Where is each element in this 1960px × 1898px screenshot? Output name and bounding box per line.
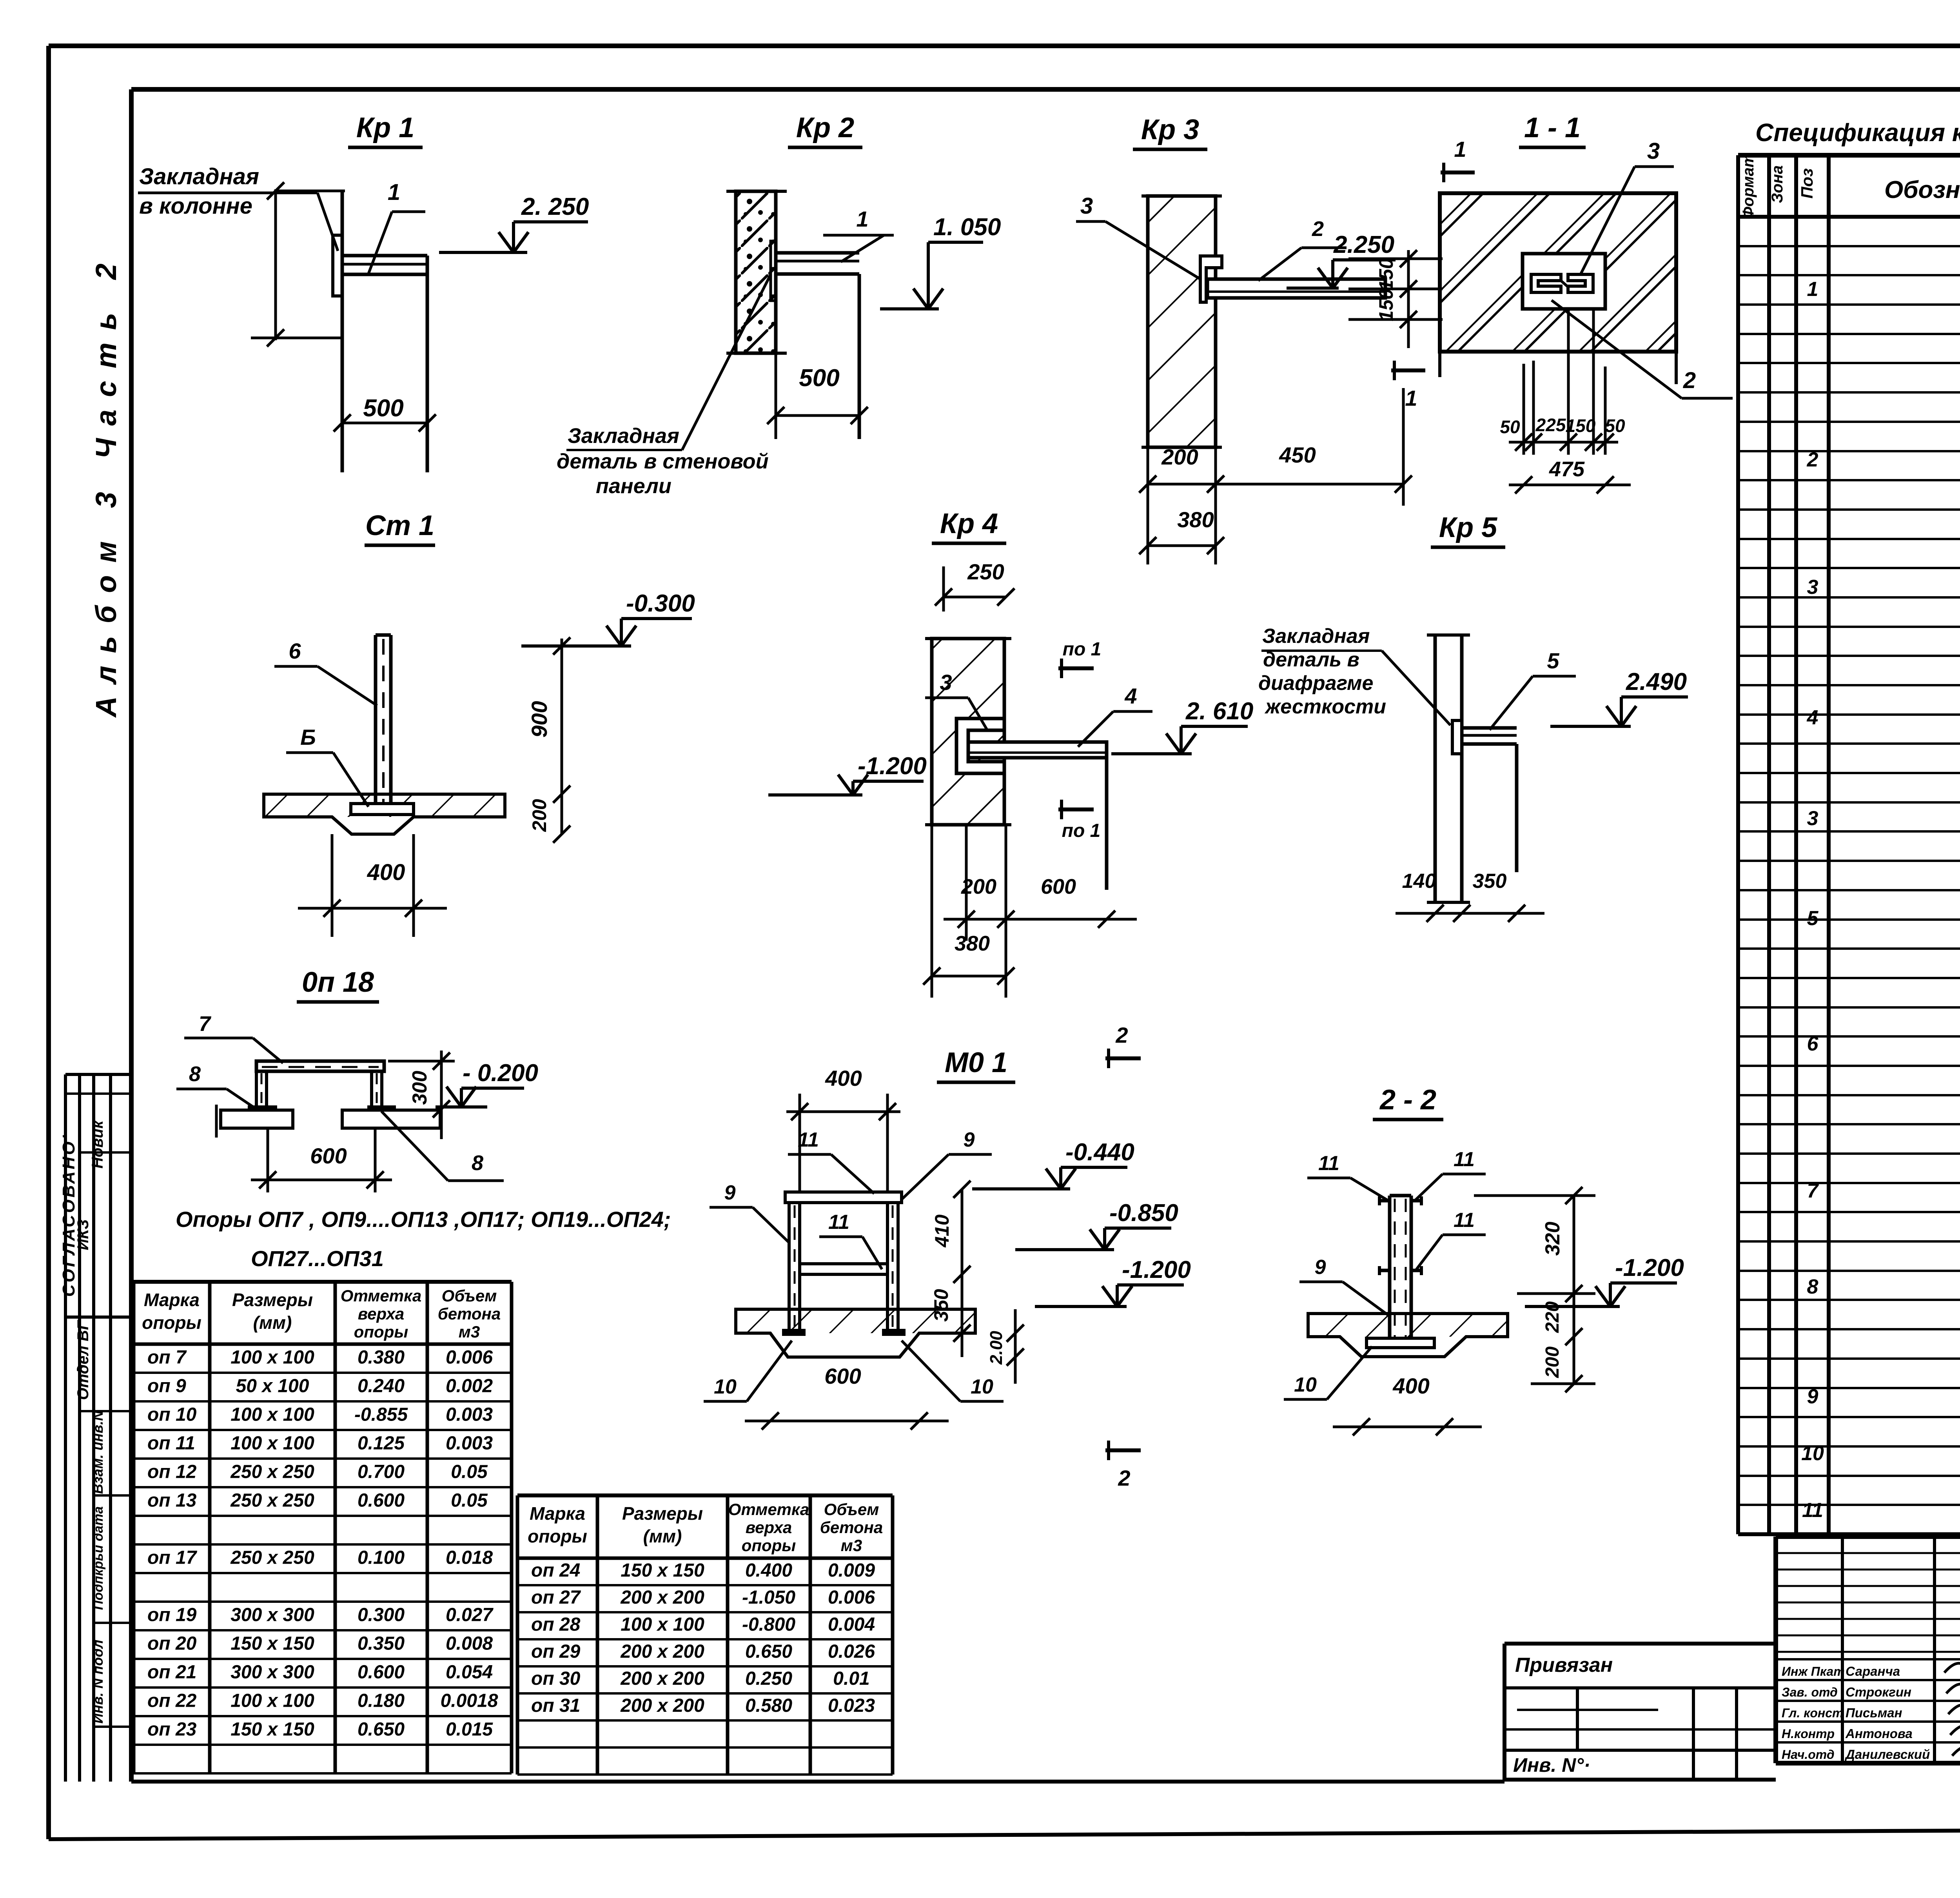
svg-text:50 х 100: 50 х 100 [236,1376,309,1397]
left stamp strip [64,1074,67,1782]
svg-text:2: 2 [1115,1023,1128,1047]
svg-text:по 1: по 1 [1062,820,1101,841]
svg-text:Кр 3: Кр 3 [1141,114,1199,145]
svg-text:300 х 300: 300 х 300 [230,1605,314,1626]
svg-text:9: 9 [1807,1385,1818,1408]
svg-text:Кр 4: Кр 4 [940,508,998,539]
svg-text:м3: м3 [459,1323,480,1341]
support marks table 1 [132,1282,136,1773]
svg-text:Ст 1: Ст 1 [365,510,434,541]
KR1 column dimension line [274,189,277,340]
svg-text:7: 7 [1807,1179,1819,1202]
OP18 dim 300 [440,1051,443,1139]
svg-text:3: 3 [1807,576,1818,599]
KR5 diaphragm wall [1434,635,1437,902]
svg-text:6: 6 [289,639,301,663]
svg-text:0.100: 0.100 [358,1548,405,1568]
svg-text:2 - 2: 2 - 2 [1379,1084,1436,1116]
svg-text:6: 6 [1807,1032,1819,1055]
svg-text:0.580: 0.580 [745,1695,792,1716]
svg-text:3: 3 [1647,138,1660,164]
svg-text:3: 3 [1807,807,1818,830]
St1 floor slab hatched [264,794,505,834]
svg-text:250 х 250: 250 х 250 [230,1490,314,1511]
svg-text:оп 29: оп 29 [531,1641,581,1662]
svg-text:2: 2 [1807,448,1818,471]
svg-text:5: 5 [1807,907,1819,930]
svg-text:150 х 150: 150 х 150 [230,1719,314,1740]
1-1 channel profile [1531,274,1561,292]
svg-text:9: 9 [1315,1256,1326,1279]
St1 vertical dim 900 200 [561,639,563,835]
svg-text:0.006: 0.006 [828,1587,875,1608]
svg-text:0.250: 0.250 [745,1668,792,1689]
svg-text:150 х 150: 150 х 150 [621,1560,704,1581]
KR1 column edge line [341,192,344,472]
svg-text:10: 10 [714,1375,737,1398]
svg-text:1. 050: 1. 050 [933,214,1001,241]
svg-text:10: 10 [1801,1442,1824,1465]
KR1 angle bracket arm [342,254,427,258]
svg-text:-0.440: -0.440 [1065,1139,1134,1166]
St1 post [374,635,377,807]
MO1 section mark 2 bottom [1105,1448,1141,1452]
svg-text:Взам. инв.N: Взам. инв.N [90,1410,106,1494]
svg-text:оп 23: оп 23 [147,1719,197,1740]
svg-text:Формат: Формат [1740,154,1757,219]
svg-text:2: 2 [1312,217,1324,241]
svg-text:0.015: 0.015 [446,1719,493,1740]
svg-text:деталь в стеновой: деталь в стеновой [557,450,769,473]
svg-text:Письман: Письман [1846,1706,1902,1720]
svg-text:0.350: 0.350 [358,1633,405,1654]
KR2 embedded plate [771,241,776,301]
svg-text:0.023: 0.023 [828,1695,875,1716]
svg-text:11: 11 [1454,1148,1475,1171]
svg-text:оп 28: оп 28 [531,1614,581,1635]
svg-text:200 х 200: 200 х 200 [620,1641,704,1662]
svg-text:оп 22: оп 22 [147,1691,197,1711]
svg-text:м3: м3 [841,1536,862,1555]
svg-text:-1.200: -1.200 [1615,1254,1684,1281]
1-1 hatched block [1440,193,1676,352]
svg-text:350: 350 [1473,870,1507,893]
svg-text:по 1: по 1 [1063,639,1102,660]
1-1 left dims 150 150 [1407,250,1410,348]
svg-text:Отметка: Отметка [341,1287,421,1305]
svg-text:Зав. отд: Зав. отд [1782,1685,1838,1699]
svg-text:410: 410 [931,1214,953,1248]
KR3 wall hatched [1148,196,1216,447]
svg-text:0.054: 0.054 [446,1662,493,1683]
KR3 embedded angle [1200,256,1222,302]
OP18 right leg [370,1071,373,1106]
svg-text:1: 1 [856,207,868,231]
svg-text:0.003: 0.003 [446,1433,493,1454]
svg-text:0.027: 0.027 [446,1605,494,1626]
svg-text:0.700: 0.700 [358,1462,405,1482]
svg-text:Инв. N°·: Инв. N°· [1513,1754,1590,1776]
svg-text:2: 2 [1118,1466,1130,1490]
svg-text:5: 5 [1547,648,1559,673]
MO1 left post [788,1203,791,1329]
MO1 top bar [785,1192,902,1203]
svg-text:-0.855: -0.855 [354,1404,408,1425]
KR4 wall hatched [932,639,1004,825]
svg-text:Новик: Новик [89,1120,106,1169]
svg-text:-1.200: -1.200 [1122,1256,1191,1283]
2-2 floor slab hatched [1308,1314,1508,1357]
svg-text:0.300: 0.300 [358,1605,405,1626]
svg-text:Зона: Зона [1769,165,1786,203]
OP18 left foot weld pad [248,1105,277,1110]
KR3 section mark 1 top [1441,171,1475,174]
svg-text:верха: верха [358,1305,404,1323]
svg-text:2.490: 2.490 [1626,668,1687,695]
sheet outer border [49,44,1960,48]
svg-text:-0.800: -0.800 [742,1614,795,1635]
svg-text:400: 400 [825,1066,862,1091]
svg-text:3: 3 [1080,193,1093,219]
svg-text:250: 250 [967,559,1004,584]
svg-text:2: 2 [1683,368,1696,393]
svg-text:11: 11 [828,1211,849,1234]
1-1 embedded box [1523,254,1605,309]
svg-text:Антонова: Антонова [1845,1726,1913,1741]
svg-text:0.05: 0.05 [451,1462,488,1482]
MO1 middle bar [800,1264,887,1274]
svg-text:380: 380 [1177,507,1214,532]
svg-text:11: 11 [1454,1209,1475,1232]
KR3 bracket arm [1207,279,1385,298]
svg-text:100 х 100: 100 х 100 [230,1691,314,1711]
svg-text:150 х 150: 150 х 150 [230,1633,314,1654]
2-2 mid flange marks [1379,1269,1390,1272]
svg-text:Нач.отд: Нач.отд [1782,1747,1835,1762]
svg-text:бетона: бетона [438,1305,501,1323]
svg-text:0.008: 0.008 [446,1633,493,1654]
svg-text:2.00: 2.00 [987,1331,1006,1365]
svg-text:140: 140 [1402,870,1436,893]
svg-text:100 х 100: 100 х 100 [230,1347,314,1368]
svg-text:600: 600 [824,1364,861,1388]
svg-text:0.380: 0.380 [358,1347,405,1368]
svg-text:600: 600 [1041,875,1076,898]
svg-text:11: 11 [798,1129,819,1151]
svg-text:1: 1 [1454,137,1466,161]
svg-text:диафрагме: диафрагме [1258,672,1373,695]
svg-text:Инв. N подл: Инв. N подл [90,1640,106,1724]
svg-text:200: 200 [1542,1346,1563,1378]
svg-text:4: 4 [1807,706,1818,729]
svg-text:7: 7 [199,1012,212,1036]
svg-text:Размеры: Размеры [232,1290,313,1310]
svg-text:0.600: 0.600 [358,1662,405,1683]
svg-text:(мм): (мм) [253,1312,292,1333]
svg-text:Кр 2: Кр 2 [796,112,854,143]
svg-text:Кр 1: Кр 1 [356,112,414,143]
svg-text:100 х 100: 100 х 100 [230,1433,314,1454]
svg-text:250 х 250: 250 х 250 [230,1548,314,1568]
svg-text:150: 150 [1375,289,1397,321]
svg-text:200: 200 [528,799,550,832]
svg-text:150: 150 [1566,416,1596,436]
svg-text:опоры: опоры [354,1323,408,1341]
svg-text:верха: верха [746,1518,792,1537]
svg-text:оп 19: оп 19 [147,1605,197,1626]
svg-text:50: 50 [1500,417,1520,437]
svg-text:ИКЗ: ИКЗ [74,1219,92,1250]
svg-text:опоры: опоры [742,1536,796,1555]
svg-text:4: 4 [1124,684,1137,708]
svg-text:1: 1 [1405,386,1417,410]
svg-text:0.240: 0.240 [358,1376,405,1397]
svg-text:300: 300 [408,1071,431,1105]
svg-text:8: 8 [1807,1276,1818,1298]
svg-text:0.003: 0.003 [446,1404,493,1425]
svg-text:0.180: 0.180 [358,1691,405,1711]
svg-text:0.004: 0.004 [828,1614,875,1635]
svg-text:оп 17: оп 17 [147,1548,198,1568]
title block [1776,1534,1960,1539]
svg-text:оп 31: оп 31 [531,1695,580,1716]
svg-text:100 х 100: 100 х 100 [621,1614,704,1635]
svg-text:11: 11 [1318,1152,1339,1175]
MO1 right post [886,1203,889,1329]
svg-text:Н.контр: Н.контр [1782,1727,1835,1741]
MO1 left foot [782,1329,806,1336]
svg-text:Привязан: Привязан [1515,1654,1613,1677]
svg-text:Закладная: Закладная [139,164,259,189]
MO1 dim 200 right [1014,1309,1017,1384]
KR4 embedded channel [956,719,1004,773]
svg-text:Размеры: Размеры [622,1503,703,1524]
svg-text:0.0018: 0.0018 [441,1691,498,1711]
svg-text:9: 9 [724,1181,736,1204]
svg-text:СОГЛАСОВАНО': СОГЛАСОВАНО' [59,1134,78,1297]
svg-text:100 х 100: 100 х 100 [230,1404,314,1425]
svg-text:900: 900 [527,701,552,737]
KR5 angle arm [1462,726,1517,730]
privyazan box [1504,1642,1776,1646]
svg-text:9: 9 [964,1129,975,1151]
svg-text:оп 10: оп 10 [147,1404,197,1425]
svg-text:Закладная: Закладная [1262,625,1370,648]
svg-text:Кр 5: Кр 5 [1439,512,1497,543]
svg-text:8: 8 [472,1151,483,1175]
svg-text:в колонне: в колонне [139,193,252,219]
KR2 concrete wall panel [736,191,776,353]
svg-text:Саранча: Саранча [1846,1664,1900,1678]
svg-text:8: 8 [189,1062,201,1086]
svg-text:500: 500 [363,395,403,422]
svg-text:475: 475 [1549,457,1585,481]
svg-text:Отметка: Отметка [728,1500,809,1519]
OP18 top bar [256,1061,384,1071]
svg-text:ОП27...ОП31: ОП27...ОП31 [251,1246,384,1271]
svg-text:-0.850: -0.850 [1109,1199,1178,1227]
svg-text:450: 450 [1279,443,1316,467]
OP18 left leg [255,1071,258,1106]
svg-text:50: 50 [1605,416,1625,436]
svg-text:Марка: Марка [144,1290,200,1310]
svg-text:2.250: 2.250 [1333,231,1394,258]
2-2 right dims 320 220 200 [1573,1196,1575,1384]
svg-text:2. 610: 2. 610 [1185,698,1253,725]
svg-text:оп 21: оп 21 [147,1662,196,1683]
svg-text:320: 320 [1541,1222,1564,1256]
svg-text:3: 3 [940,670,952,695]
svg-text:оп 20: оп 20 [147,1633,197,1654]
svg-text:200 х 200: 200 х 200 [620,1695,704,1716]
svg-text:оп 9: оп 9 [147,1376,186,1397]
svg-text:0.006: 0.006 [446,1347,493,1368]
svg-text:бетона: бетона [820,1518,883,1537]
KR4 section marks po1 [1058,666,1094,670]
svg-text:1 - 1: 1 - 1 [1524,112,1581,143]
svg-text:(мм): (мм) [643,1526,682,1546]
svg-text:0.05: 0.05 [451,1490,488,1511]
svg-text:Спецификация к кронштейнам К: Спецификация к кронштейнам КР1÷КР5 и опо… [1755,118,1960,147]
svg-text:Опоры ОП7 , ОП9....ОП13 ,ОП17: Опоры ОП7 , ОП9....ОП13 ,ОП17; ОП19...ОП… [176,1207,671,1232]
svg-text:оп 24: оп 24 [531,1560,580,1581]
svg-text:2. 250: 2. 250 [521,193,589,220]
2-2 top flange marks [1379,1199,1390,1203]
svg-text:Объем: Объем [442,1287,497,1305]
svg-text:0.400: 0.400 [745,1560,792,1581]
svg-text:Поз: Поз [1798,168,1816,198]
svg-text:Подпкрьи дата: Подпкрьи дата [91,1506,106,1610]
svg-text:0.01: 0.01 [833,1668,869,1689]
KR4 arm [968,742,1107,758]
svg-text:250 х 250: 250 х 250 [230,1462,314,1482]
svg-text:200 х 200: 200 х 200 [620,1668,704,1689]
svg-text:225: 225 [1535,415,1566,435]
svg-text:Гл. конст: Гл. конст [1782,1706,1843,1720]
svg-text:1: 1 [388,180,400,205]
svg-text:400: 400 [1392,1374,1429,1398]
svg-text:опоры: опоры [142,1312,201,1333]
svg-text:оп 13: оп 13 [147,1490,197,1511]
svg-text:Обозначение: Обозначение [1884,176,1960,203]
svg-text:0.026: 0.026 [828,1641,875,1662]
svg-text:400: 400 [367,860,405,885]
2-2 base plate [1367,1338,1434,1348]
svg-text:300 х 300: 300 х 300 [230,1662,314,1683]
svg-text:10: 10 [1294,1374,1317,1396]
svg-text:- 0.200: - 0.200 [463,1060,538,1087]
KR5 embedded plate [1452,720,1462,754]
svg-text:М0 1: М0 1 [945,1047,1007,1078]
svg-text:оп 27: оп 27 [531,1587,581,1608]
svg-text:0.125: 0.125 [358,1433,405,1454]
svg-text:Б: Б [300,725,316,749]
St1 base plate [351,804,414,815]
svg-text:0п 18: 0п 18 [302,967,374,998]
svg-text:Закладная: Закладная [568,424,679,448]
KR2 angle arm [776,251,859,255]
MO1 right dim 410 350 [961,1189,964,1357]
svg-text:0.018: 0.018 [446,1548,493,1568]
svg-text:10: 10 [971,1375,993,1398]
svg-text:11: 11 [1802,1499,1823,1522]
MO1 floor slab hatched [736,1309,975,1357]
svg-text:380: 380 [955,932,990,955]
svg-text:350: 350 [930,1289,952,1322]
svg-text:Инж Пкат: Инж Пкат [1782,1664,1845,1678]
svg-text:Данилевский: Данилевский [1844,1747,1930,1762]
svg-text:панели: панели [596,474,671,498]
svg-text:оп 7: оп 7 [147,1347,187,1368]
svg-text:200: 200 [1161,445,1198,469]
svg-text:0.600: 0.600 [358,1490,405,1511]
svg-text:500: 500 [799,365,839,392]
svg-text:0.009: 0.009 [828,1560,875,1581]
svg-text:150: 150 [1375,258,1397,291]
svg-text:0.650: 0.650 [745,1641,792,1662]
svg-text:Объем: Объем [824,1500,879,1519]
specification table grid [1736,155,1740,1534]
OP18 right foot weld pad [367,1105,396,1110]
svg-text:жесткости: жесткости [1264,695,1386,718]
svg-text:опоры: опоры [528,1526,587,1546]
MO1 right foot [882,1329,906,1336]
KR1 embedded plate [333,235,342,296]
1-1 bottom dims [1523,364,1525,455]
svg-text:600: 600 [310,1143,347,1168]
inner frame [131,87,1960,92]
svg-text:оп 12: оп 12 [147,1462,197,1482]
support marks table 2 [516,1495,519,1775]
KR3 section mark 1 bottom [1391,368,1425,372]
svg-text:0.002: 0.002 [446,1376,493,1397]
svg-text:-1.050: -1.050 [742,1587,795,1608]
svg-text:Строкгин: Строкгин [1846,1685,1911,1699]
svg-text:Отдел ВГ: Отдел ВГ [74,1319,92,1400]
OP18 right foundation strip [342,1110,440,1128]
svg-text:оп 11: оп 11 [147,1433,195,1454]
svg-text:-0.300: -0.300 [626,590,695,617]
svg-text:0.650: 0.650 [358,1719,405,1740]
svg-text:200 х 200: 200 х 200 [620,1587,704,1608]
2-2 post [1388,1196,1392,1338]
svg-text:Альбом 3 Часть 2: Альбом 3 Часть 2 [90,251,122,718]
svg-text:оп 30: оп 30 [531,1668,581,1689]
svg-text:Марка: Марка [530,1503,585,1524]
OP18 left foundation strip [221,1110,293,1128]
svg-text:1: 1 [1807,278,1818,301]
